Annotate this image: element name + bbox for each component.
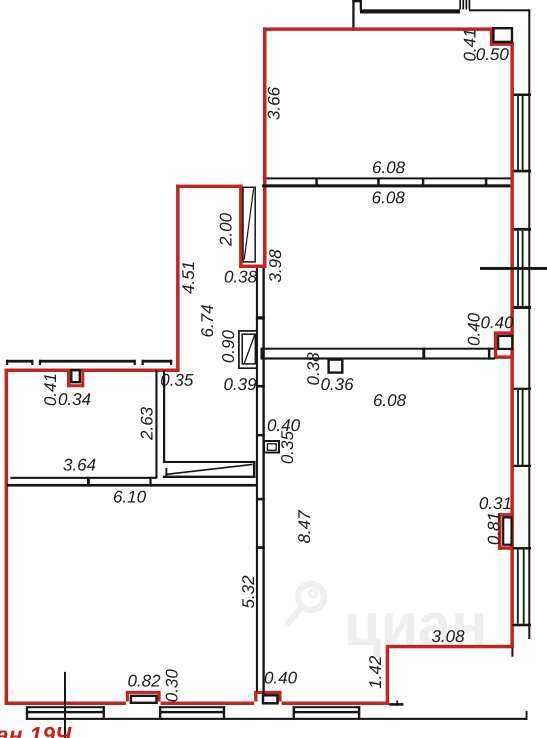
central wall left line [256,268,258,692]
0.90 window corridor [239,331,257,368]
balcony thin ledge line [469,9,530,11]
right tick line [480,267,547,270]
svg-text:1.42: 1.42 [366,655,385,689]
corridor left wall line2 [163,370,165,462]
svg-text:3.98: 3.98 [266,249,285,283]
red wall: bottom-right horizontal [389,645,514,649]
red wall: left of top room [263,27,267,268]
svg-text:0.31: 0.31 [479,494,512,513]
black box 0.82 vent [131,696,157,703]
bottom window C [293,706,361,720]
svg-text:0.39: 0.39 [223,375,257,394]
svg-text:0.41: 0.41 [460,28,479,61]
svg-text:0.35: 0.35 [278,431,297,465]
svg-text:0.38: 0.38 [224,267,258,286]
outer facade line right [528,9,530,639]
red bay 0.81 right side [498,513,502,550]
svg-text:ан 19Ч: ан 19Ч [0,723,72,738]
bottom window A [26,706,105,720]
svg-text:0.82: 0.82 [127,671,161,690]
svg-text:6.74: 6.74 [198,304,217,337]
red wall: top-right jog vertical [490,27,493,45]
bottom window B [159,706,225,720]
thin vertical line bottom left [64,672,66,738]
red wall: left side [5,369,9,706]
black box 0.50 top right [493,28,512,42]
red wall: bottom [5,702,126,706]
wall middle/bottom rooms: upper line [261,348,494,350]
svg-text:4.51: 4.51 [179,261,198,294]
svg-text:0.36: 0.36 [320,375,354,394]
central wall ticks [256,316,265,549]
svg-text:3.64: 3.64 [63,455,96,474]
svg-text:5.32: 5.32 [239,575,258,609]
right facade window W4 [513,547,531,626]
black box 0.40 bottom vent [263,695,278,703]
red wall: top-right jog horizontal [490,42,514,45]
svg-text:0.50: 0.50 [476,45,510,64]
red vent bump 0.40 bottom [254,691,257,702]
svg-text:2.63: 2.63 [138,406,157,441]
svg-text:2.00: 2.00 [216,212,235,247]
red vent bump 0.34 [67,372,70,387]
svg-text:0.30: 0.30 [162,669,181,703]
red wall: niche left vertical [239,185,243,268]
svg-text:0.40: 0.40 [480,313,514,332]
svg-text:0.40: 0.40 [264,668,298,687]
balcony top step [352,0,362,2]
right facade window W3 [514,388,531,467]
svg-text:6.08: 6.08 [372,158,406,177]
wall between top rooms: thin upper line [267,177,511,179]
wall between top rooms: thick line [262,184,510,187]
wall middle/bottom rooms: lower line [261,357,495,359]
red wall: channel top horizontal [176,185,243,189]
red wall: bottom step vertical [386,645,390,705]
wall ticks left bottom [87,477,152,487]
wall ticks top [315,177,487,187]
svg-text:8.47: 8.47 [295,510,314,544]
red wall: channel left vertical [176,185,180,372]
svg-text:6.10: 6.10 [113,487,147,506]
svg-text:3.08: 3.08 [431,627,465,646]
short line below SE corner [511,648,513,656]
black box 0.40 right notch [498,336,512,349]
right facade window W2 [514,228,531,309]
balcony left wall [352,0,354,28]
red notch 0.40 right side [494,331,497,359]
left room bottom wall lower line [7,484,256,487]
svg-text:3.66: 3.66 [265,86,284,120]
watermark logo [287,584,324,625]
svg-text:0.34: 0.34 [58,390,91,409]
svg-text:6.08: 6.08 [372,188,406,207]
black segment right of red corner [389,703,403,706]
svg-text:0.90: 0.90 [219,330,238,364]
central wall right line [262,268,264,695]
left room bottom wall upper line [10,477,156,479]
red wall: top of big top room [263,27,493,31]
wall ticks middle [261,348,491,360]
bottom facade continuous line [26,718,528,720]
red wall: top of left room [5,369,180,373]
red wall: right side [510,42,514,648]
svg-text:6.08: 6.08 [373,391,407,410]
red vent bump 0.82 [126,691,129,702]
svg-text:0.35: 0.35 [160,371,194,390]
balcony window hatch [459,0,470,10]
corridor left wall line1 [155,370,157,479]
right facade window W1 [514,94,531,173]
svg-text:0.81: 0.81 [484,512,503,545]
black box 0.81 bay [503,517,511,544]
door leaf in niche [243,187,255,262]
corridor vent 0.35 [264,441,279,453]
black box 0.34 vent [71,370,80,382]
vent 0.36 [329,360,343,373]
dashed boundary line top-left [6,360,172,365]
balcony front wall [360,9,460,13]
red wall: niche bottom [239,265,266,269]
corridor door strip [163,461,256,478]
